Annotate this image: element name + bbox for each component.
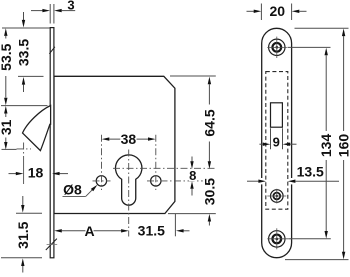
svg-text:30.5: 30.5 [201,178,217,205]
svg-text:33.5: 33.5 [16,39,32,66]
svg-text:Ø8: Ø8 [63,181,82,197]
svg-text:31.5: 31.5 [15,221,31,248]
svg-text:8: 8 [189,168,196,183]
svg-text:18: 18 [28,164,44,180]
svg-text:134: 134 [318,134,334,158]
svg-text:160: 160 [336,134,350,158]
svg-text:31: 31 [0,119,14,135]
svg-text:9: 9 [273,135,280,150]
svg-text:A: A [84,223,94,239]
svg-text:20: 20 [270,3,286,19]
svg-text:38: 38 [121,131,137,147]
svg-text:31.5: 31.5 [138,223,165,239]
svg-text:64.5: 64.5 [201,109,217,136]
svg-text:53.5: 53.5 [0,43,14,70]
svg-text:3: 3 [67,0,74,12]
svg-text:13.5: 13.5 [297,163,324,179]
